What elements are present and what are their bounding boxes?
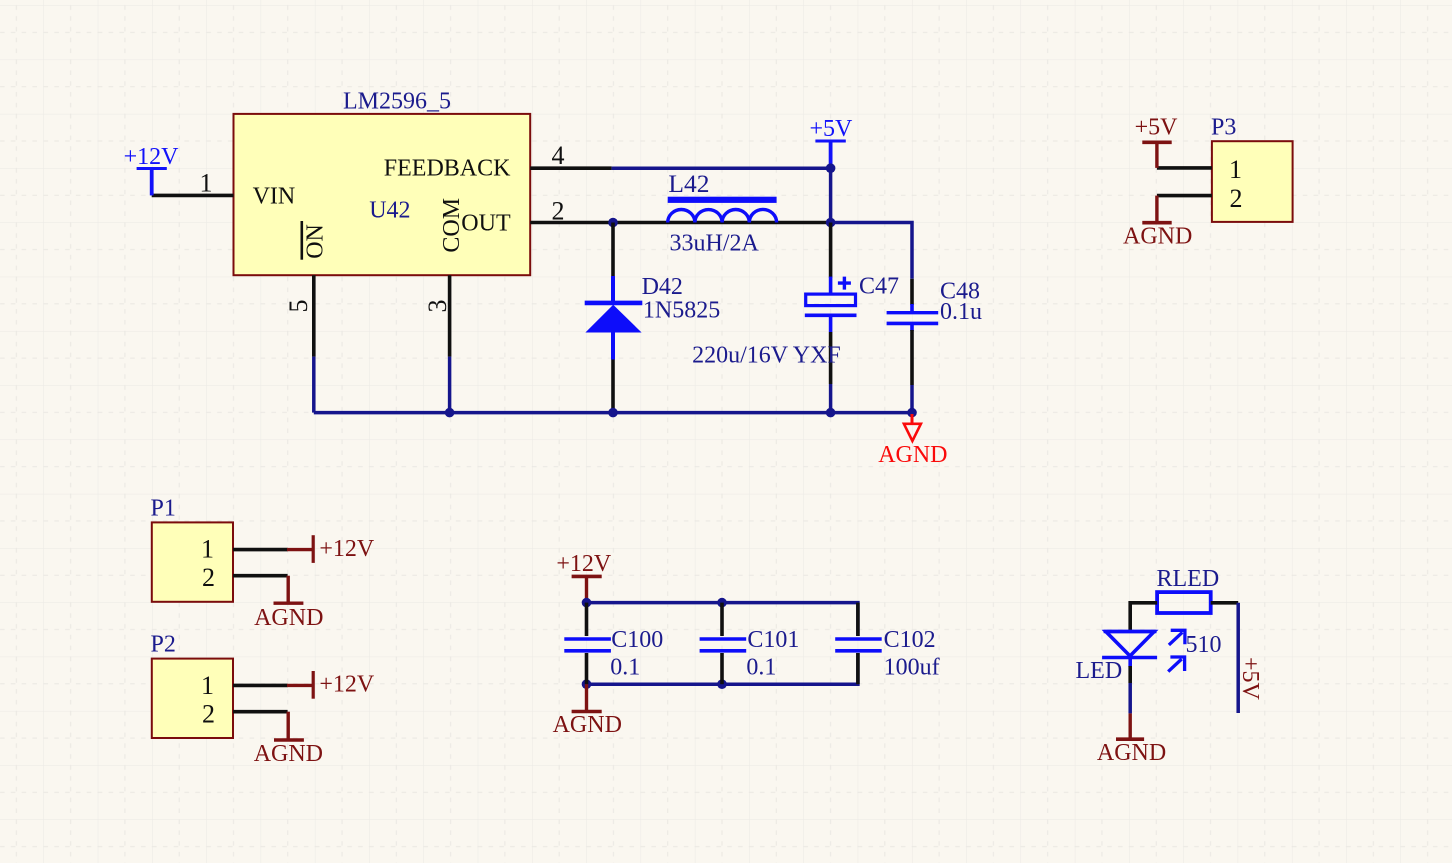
pin 1 (VIN) [152, 194, 234, 198]
ground AGND (red arrow style) [878, 414, 947, 468]
svg-text:C47: C47 [859, 274, 899, 300]
svg-text:1: 1 [201, 671, 214, 700]
svg-text:+12V: +12V [319, 536, 375, 562]
capacitor C48 top pin [910, 279, 914, 305]
P3 pin 2 wire [1157, 194, 1212, 198]
svg-text:VIN: VIN [253, 184, 296, 210]
svg-text:AGND: AGND [1097, 740, 1166, 766]
inductor L42 windings [668, 209, 777, 222]
svg-text:2: 2 [202, 700, 215, 729]
capacitor C101 leads [720, 603, 724, 685]
junction node C48/bus [907, 408, 917, 418]
power port +5V (top) [810, 116, 854, 168]
svg-text:2: 2 [552, 197, 565, 226]
LED emission arrow 2 [1168, 657, 1184, 672]
junction node C100 bottom [582, 679, 592, 689]
C47 top plate (hollow) [806, 294, 856, 306]
diode D42 bottom lead [611, 333, 615, 360]
junction node D42/bus [608, 408, 618, 418]
LED cathode lead down [1128, 658, 1132, 668]
connector P3 body [1212, 141, 1293, 222]
junction node at +5V/pin4 [826, 163, 836, 173]
power port +5V at P3 [1135, 115, 1179, 168]
svg-text:C100: C100 [611, 627, 663, 653]
pin 4 (FEEDBACK) [530, 166, 611, 170]
svg-text:AGND: AGND [254, 605, 323, 631]
svg-text:U42: U42 [369, 198, 410, 224]
svg-text:+5V: +5V [1135, 115, 1179, 141]
svg-text:FEEDBACK: FEEDBACK [384, 155, 511, 181]
svg-text:+12V: +12V [319, 672, 375, 698]
P3 pin 1 wire [1157, 166, 1212, 170]
svg-text:OUT: OUT [461, 210, 511, 236]
power port AGND at cap bank [553, 684, 622, 738]
wire pin3 to bus [448, 357, 452, 413]
svg-text:2: 2 [202, 563, 215, 592]
svg-text:4: 4 [552, 141, 565, 170]
capacitor C102 leads [856, 603, 860, 685]
diode D42 top lead [611, 223, 615, 278]
wire down to +5V [1236, 603, 1240, 713]
C47 bottom plate [805, 313, 857, 317]
svg-text:0.1: 0.1 [610, 655, 640, 681]
LED D anode line [1104, 630, 1157, 634]
svg-text:5: 5 [284, 300, 313, 313]
wire resistor right corner [1211, 601, 1239, 605]
IC U42 body [234, 114, 531, 275]
svg-text:2: 2 [1230, 184, 1243, 213]
svg-text:P3: P3 [1211, 115, 1236, 141]
svg-text:RLED: RLED [1157, 566, 1220, 592]
svg-text:510: 510 [1186, 632, 1222, 658]
svg-text:+12V: +12V [556, 551, 612, 577]
svg-text:AGND: AGND [553, 712, 622, 738]
svg-text:33uH/2A: 33uH/2A [670, 231, 760, 257]
power port +12V at P1 [287, 535, 375, 563]
svg-text:3: 3 [423, 300, 452, 313]
svg-text:100uf: 100uf [884, 655, 940, 681]
C102 plates [835, 639, 882, 651]
svg-text:+5V: +5V [1237, 657, 1263, 701]
svg-text:0.1: 0.1 [746, 655, 776, 681]
svg-text:AGND: AGND [1123, 224, 1192, 250]
power port AGND at P1 [254, 576, 323, 632]
pin 3 (COM) [448, 275, 452, 356]
diode D42 triangle [585, 305, 641, 333]
ground bus wire [314, 411, 912, 415]
inductor L42 core bar [668, 197, 777, 203]
wire resistor left to LED [1130, 603, 1157, 631]
wire OUT node to C48 corner [831, 223, 912, 279]
power port AGND at LED [1097, 713, 1166, 766]
junction node C101 bottom [717, 679, 727, 689]
LED cathode line [1102, 656, 1157, 660]
wire LED cathode to AGND [1128, 683, 1132, 713]
svg-text:COM: COM [439, 198, 465, 253]
bottom rail wire [587, 653, 858, 684]
wire pin5 corner [312, 357, 316, 413]
svg-text:L42: L42 [668, 169, 709, 198]
LED triangle [1106, 632, 1154, 657]
LED emission arrow 1 [1169, 630, 1185, 645]
junction node pin3/bus [445, 408, 455, 418]
P2 pin 2 wire [233, 710, 288, 714]
svg-text:D42: D42 [642, 274, 683, 300]
power port AGND at P3 [1123, 196, 1192, 250]
C47 polarity plus [838, 277, 851, 290]
resistor RLED body [1157, 592, 1211, 613]
svg-text:C102: C102 [884, 627, 936, 653]
connector P2 body [152, 659, 233, 738]
svg-text:+5V: +5V [810, 116, 854, 142]
wire +5V node down to OUT node [829, 168, 833, 222]
capacitor C100 leads [585, 603, 589, 685]
svg-text:C101: C101 [747, 627, 799, 653]
diode D42 cathode bar [585, 301, 643, 306]
svg-text:ON: ON [303, 224, 329, 259]
junction node C47/bus [826, 408, 836, 418]
C101 plates [700, 639, 747, 651]
junction node at C47 top [826, 218, 836, 228]
pin 5 (ON) [312, 275, 316, 356]
connector P1 body [152, 522, 233, 601]
pin 2 (OUT) [530, 221, 611, 225]
svg-text:AGND: AGND [254, 741, 323, 767]
svg-text:1: 1 [200, 169, 213, 198]
svg-text:P1: P1 [151, 496, 176, 522]
capacitor C47 top pin [829, 223, 833, 278]
wire OUT row (black pin run) [612, 221, 831, 225]
power port +12V at cap bank [556, 551, 612, 603]
svg-text:P2: P2 [151, 631, 176, 657]
svg-text:1N5825: 1N5825 [643, 298, 720, 324]
wire pin4 to +5V node [612, 166, 831, 170]
P2 pin 1 wire [233, 684, 288, 688]
P1 pin 2 wire [233, 574, 288, 578]
svg-text:1: 1 [201, 534, 214, 563]
C48 plates [887, 311, 939, 314]
junction node C100 top [582, 598, 592, 608]
power port AGND at P2 [254, 712, 323, 767]
top rail wire [587, 603, 858, 636]
power port +12V at P2 [287, 671, 375, 699]
svg-text:LM2596_5: LM2596_5 [343, 89, 451, 115]
C47 bottom pin [829, 315, 833, 332]
power port +12V (input) [124, 144, 180, 196]
svg-text:220u/16V YXF: 220u/16V YXF [692, 342, 841, 368]
svg-text:AGND: AGND [878, 442, 947, 468]
svg-text:LED: LED [1076, 658, 1123, 684]
ON overbar [300, 221, 303, 260]
C100 plates [564, 639, 611, 651]
svg-text:0.1u: 0.1u [940, 299, 982, 325]
junction node at D42 [608, 218, 618, 228]
svg-text:1: 1 [1229, 155, 1242, 184]
C48 bottom pin [910, 323, 914, 331]
junction node C101 top [717, 598, 727, 608]
P1 pin 1 wire [233, 548, 288, 552]
svg-text:+12V: +12V [124, 144, 180, 170]
